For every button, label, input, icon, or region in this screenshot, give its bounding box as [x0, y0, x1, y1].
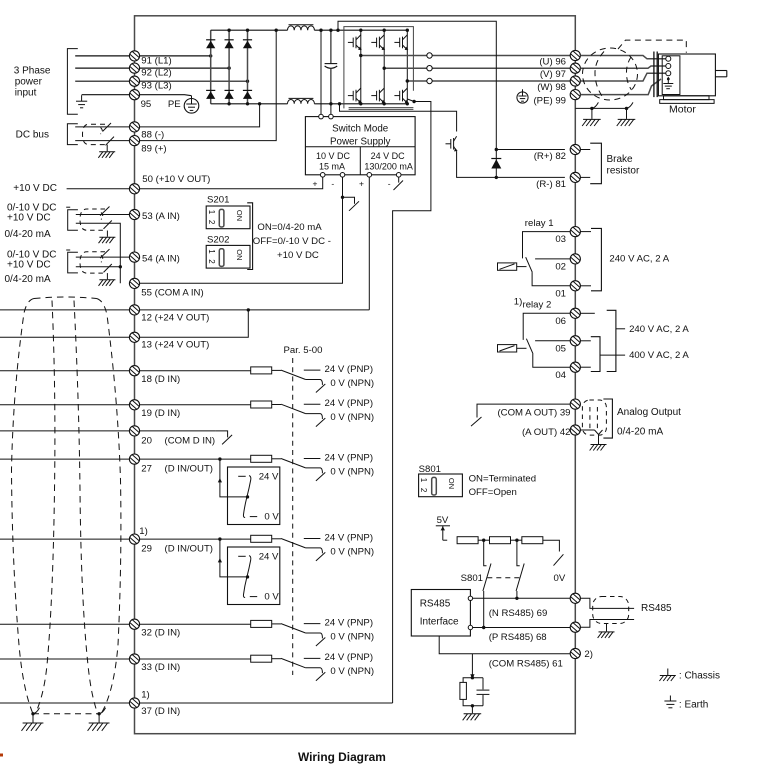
wire 18 internal — [140, 370, 251, 372]
bracket 54 — [68, 252, 78, 273]
svg-text:ON=Terminated: ON=Terminated — [469, 473, 536, 484]
svg-text:18 (D IN): 18 (D IN) — [141, 374, 180, 385]
DC+ bus right — [314, 29, 407, 31]
svg-text:Brake: Brake — [607, 154, 634, 165]
stub 82 — [580, 149, 590, 151]
wire 27 to selector — [220, 459, 248, 497]
wire 93 to rectifier — [140, 80, 248, 82]
dashed PNP/NPN boundary — [292, 358, 294, 675]
label Brake resistor — [607, 154, 640, 177]
DC- bus right — [314, 103, 407, 105]
svg-text:33 (D IN): 33 (D IN) — [141, 662, 180, 673]
wire 29 external — [0, 538, 129, 540]
resistor input 29 — [251, 535, 272, 542]
terminal 99 (PE) — [570, 90, 580, 100]
page artifact red mark — [0, 754, 3, 757]
42 shield tie — [595, 430, 603, 444]
wire V to motor — [580, 66, 665, 68]
resistor R3 termination — [522, 537, 543, 544]
bracket analog output — [603, 399, 612, 438]
terminal 20 (COM D IN) — [129, 426, 139, 436]
labels 53 analog input — [5, 202, 57, 240]
wire 18 external — [0, 370, 129, 372]
terminal 91 (L1) — [129, 51, 139, 61]
shield bond over motor (dashed) — [618, 40, 686, 53]
svg-text:Motor: Motor — [669, 104, 696, 116]
wire 12 to +24V — [140, 309, 370, 311]
wire to terminal 82 — [496, 149, 565, 151]
svg-text:-: - — [388, 178, 391, 188]
svg-text:S201: S201 — [207, 194, 229, 205]
earth ground input PE — [76, 95, 87, 108]
analog output shield (dashed) — [582, 400, 606, 435]
svg-text:(U) 96: (U) 96 — [539, 56, 566, 67]
svg-text:55 (COM A IN): 55 (COM A IN) — [141, 287, 203, 298]
svg-text:Par. 5-00: Par. 5-00 — [284, 345, 323, 356]
terminal 89 (+) — [129, 136, 139, 146]
wire to terminal 81 — [496, 176, 565, 178]
rectifier diode D5 (bottom) — [225, 90, 234, 99]
brake freewheel diode — [491, 159, 501, 169]
svg-text:input: input — [15, 88, 37, 99]
wire 5V rail — [443, 539, 447, 541]
RS485 pins — [468, 596, 472, 600]
rectifier diode D1 (top) — [206, 40, 215, 49]
resistor input 19 — [251, 401, 272, 408]
chassis ground motor shield 2 — [617, 119, 636, 126]
wire phase V — [384, 67, 570, 69]
svg-text:24 V: 24 V — [259, 472, 279, 483]
wire RS485 P external — [580, 620, 634, 628]
PNP/NPN selector 29 — [281, 539, 325, 561]
DC link capacitor — [325, 30, 338, 104]
bracket S201/S202 — [247, 203, 252, 270]
svg-text:Power Supply: Power Supply — [330, 136, 391, 147]
arrow up on selector feed 27 — [218, 478, 222, 482]
svg-text:ON=0/4-20 mA: ON=0/4-20 mA — [257, 222, 322, 233]
wire relay2 common — [533, 354, 570, 367]
rectifier diode D4 (bottom) — [206, 90, 215, 99]
labels + - + - — [313, 178, 391, 188]
svg-text:2: 2 — [207, 259, 216, 264]
wire STO chain down — [393, 102, 431, 704]
terminal 03 relay1 — [570, 227, 580, 237]
terminal 88 (-) — [129, 122, 139, 132]
wire 54 signal — [76, 256, 130, 258]
svg-text:Interface: Interface — [420, 617, 459, 628]
svg-text:24 V (PNP): 24 V (PNP) — [325, 652, 374, 663]
wire phase U — [361, 55, 570, 57]
terminal 55 (COM A IN) — [129, 278, 139, 288]
svg-text:05: 05 — [555, 343, 566, 354]
wire 53 signal — [76, 214, 130, 216]
svg-text:+10 V DC: +10 V DC — [13, 183, 57, 194]
svg-text:13 (+24 V OUT): 13 (+24 V OUT) — [141, 340, 209, 351]
inverter phase line 2 — [406, 30, 408, 104]
svg-text:power: power — [15, 77, 43, 88]
break on 39 — [471, 417, 482, 426]
svg-text:OFF=Open: OFF=Open — [469, 487, 517, 498]
wire PE to motor — [580, 79, 661, 95]
svg-text:RS485: RS485 — [420, 598, 451, 609]
wire 88 to DC- bus — [140, 104, 260, 127]
svg-text:0 V (NPN): 0 V (NPN) — [330, 466, 374, 477]
wire 10V common to terminal 55 — [140, 177, 343, 283]
wire brake IGBT emitter — [457, 151, 497, 177]
IGBT Q3 (top row) — [394, 35, 408, 50]
svg-text:OFF=0/-10 V DC -: OFF=0/-10 V DC - — [253, 236, 331, 247]
svg-text:29: 29 — [141, 543, 152, 554]
svg-text:(R-) 81: (R-) 81 — [536, 179, 566, 190]
stub 05 — [580, 340, 590, 342]
terminal 53 (A IN) — [129, 209, 139, 219]
chassis ground RS485 shield — [598, 632, 615, 638]
svg-text:400 V AC, 2 A: 400 V AC, 2 A — [629, 350, 689, 361]
wire 37 external — [0, 702, 129, 704]
stub 81 — [580, 176, 590, 178]
SMPS input pins — [319, 114, 324, 119]
svg-text:27: 27 — [141, 463, 152, 474]
break on 53 signal — [100, 207, 109, 216]
terminal 82 (R+) — [570, 144, 580, 154]
wire 53 common — [76, 223, 121, 283]
svg-text:0V: 0V — [554, 573, 566, 584]
bracket 53 — [68, 210, 78, 231]
bundle clamp 1 — [31, 712, 34, 715]
DC+ bus left — [211, 29, 288, 31]
wire L1 input — [75, 55, 129, 57]
break to 0V — [554, 554, 564, 565]
connector break on 20 — [216, 431, 233, 445]
svg-text:(A OUT) 42: (A OUT) 42 — [522, 427, 571, 438]
RC termination network — [460, 678, 490, 706]
chassis ground analog out — [590, 445, 607, 451]
svg-text:89 (+): 89 (+) — [141, 143, 166, 154]
phase sensor circle — [427, 78, 432, 83]
wire 39 common — [477, 404, 570, 417]
wire P RS485 — [473, 627, 571, 629]
stub 06 — [580, 312, 594, 314]
rectifier diode D3 (top) — [243, 40, 252, 49]
terminal 27 (D IN/OUT) — [129, 454, 139, 464]
svg-text:0 V: 0 V — [264, 511, 279, 522]
svg-text:0/4-20 mA: 0/4-20 mA — [617, 426, 663, 437]
svg-text:54 (A IN): 54 (A IN) — [142, 254, 180, 265]
terminal 32 (D IN) — [129, 619, 139, 629]
terminal 54 (A IN) — [129, 252, 139, 262]
motor internal earth — [663, 77, 673, 89]
selector contact 27 — [238, 476, 257, 518]
legend earth symbol — [664, 696, 676, 708]
svg-text:03: 03 — [555, 234, 566, 245]
svg-text:93 (L3): 93 (L3) — [141, 81, 171, 92]
PE earth-in-circle at 99 — [517, 89, 528, 103]
terminal 02 relay1 — [570, 254, 580, 264]
rectifier bridge — [211, 30, 248, 104]
wire 33 internal — [140, 658, 251, 660]
PNP/NPN selector 18 — [281, 370, 325, 392]
wire 29 to selector — [220, 539, 248, 577]
wire 27 internal — [140, 458, 251, 460]
stub 01 — [580, 285, 591, 287]
terminal 50 (+10 V OUT) — [129, 184, 139, 194]
terminal 97 (V) — [570, 63, 580, 73]
wire 99 shield bonding — [575, 107, 626, 109]
wire 42 out — [580, 429, 594, 431]
S801 switch contact 1 — [483, 540, 491, 627]
wire 29 internal — [140, 538, 251, 540]
wire +24V to terminal 12 — [368, 177, 370, 310]
wire DC+ to brake — [338, 21, 496, 177]
svg-text:06: 06 — [555, 316, 566, 327]
wire phase W — [407, 80, 570, 82]
svg-text:RS485: RS485 — [641, 603, 672, 614]
wire 89 to DC+ bus — [140, 30, 277, 140]
terminal 95 PE — [129, 90, 139, 100]
selector contact 29 — [238, 556, 257, 598]
svg-text:1): 1) — [141, 689, 150, 700]
control cable shield bundle (dashed) — [12, 297, 121, 714]
svg-text:20: 20 — [141, 435, 152, 446]
resistor input 27 — [251, 455, 272, 462]
svg-text:1): 1) — [139, 526, 148, 537]
S20x annotation — [253, 222, 331, 261]
break on 54 common — [104, 264, 112, 272]
svg-text:1): 1) — [514, 297, 523, 308]
svg-text:240 V AC, 2 A: 240 V AC, 2 A — [629, 324, 689, 335]
wire to 0V — [543, 540, 560, 551]
svg-text:15 mA: 15 mA — [319, 161, 345, 171]
relay 2 contact arm — [526, 339, 533, 354]
svg-text:02: 02 — [555, 262, 566, 273]
terminal 05 relay2 — [570, 336, 580, 346]
motor — [654, 52, 727, 104]
svg-text:24 V (PNP): 24 V (PNP) — [325, 617, 374, 628]
bracket relay 1 — [591, 228, 601, 290]
terminal 81 (R-) — [570, 172, 580, 182]
S801 switch contact 2 — [516, 540, 524, 598]
svg-text:0/4-20 mA: 0/4-20 mA — [5, 229, 51, 240]
svg-text:24 V (PNP): 24 V (PNP) — [325, 398, 374, 409]
svg-text:resistor: resistor — [607, 166, 640, 177]
wire relay1 common — [532, 272, 570, 286]
resistor R2 termination — [490, 537, 511, 544]
svg-text:24 V DC: 24 V DC — [371, 151, 406, 161]
svg-text:24 V (PNP): 24 V (PNP) — [325, 452, 374, 463]
svg-text:95: 95 — [141, 99, 152, 110]
terminal 69 (N RS485) — [570, 593, 580, 603]
wire 88 — [75, 126, 129, 128]
wire L2 input — [75, 67, 129, 69]
bracket relay 2 outer — [607, 310, 616, 371]
terminal 96 (U) — [570, 50, 580, 60]
inverter module frame — [344, 27, 414, 110]
svg-text:0 V (NPN): 0 V (NPN) — [330, 631, 374, 642]
wire 19 external — [0, 404, 129, 406]
label 27 (D IN/OUT) — [141, 463, 213, 474]
relay 2 coil — [498, 345, 527, 352]
RS485 cable shield (dashed) — [593, 597, 629, 624]
terminal 13 (+24 V OUT) — [129, 332, 139, 342]
terminal 68 (P RS485) — [570, 622, 580, 632]
wire 92 to rectifier — [140, 67, 230, 69]
rectifier diode D6 (bottom) — [243, 90, 252, 99]
dash to 400V label — [600, 354, 625, 356]
break on 53 common — [104, 221, 112, 229]
svg-text:Analog Output: Analog Output — [617, 407, 681, 418]
svg-text:01: 01 — [555, 288, 566, 299]
svg-text:1: 1 — [419, 478, 428, 483]
svg-text:0 V (NPN): 0 V (NPN) — [330, 412, 374, 423]
svg-text:1: 1 — [207, 210, 216, 215]
terminal 04 relay2 — [570, 362, 580, 372]
svg-text:32 (D IN): 32 (D IN) — [141, 627, 180, 638]
bracket relay 2 inner — [591, 337, 600, 372]
bracket DC bus — [67, 124, 77, 145]
svg-text:0 V: 0 V — [264, 591, 279, 602]
DC bus cable shield (dashed) — [83, 124, 106, 144]
wire 20 internal — [140, 430, 216, 432]
drive enclosure box — [135, 16, 576, 734]
terminal 33 (D IN) — [129, 654, 139, 664]
svg-text:Wiring Diagram: Wiring Diagram — [298, 750, 386, 764]
PNP/NPN selector 33 — [281, 658, 325, 680]
terminal 06 relay2 — [570, 308, 580, 318]
svg-text:50 (+10 V OUT): 50 (+10 V OUT) — [142, 174, 210, 185]
svg-text:relay 1: relay 1 — [525, 218, 554, 229]
legend chassis symbol — [659, 669, 675, 682]
terminal 61 (COM RS485) — [570, 648, 580, 658]
PNP/NPN selector 32 — [281, 624, 325, 646]
terminal 19 (D IN) — [129, 400, 139, 410]
shield drain to chassis — [106, 145, 108, 152]
resistor input 32 — [251, 620, 272, 627]
wire 19 internal — [140, 404, 251, 406]
svg-text:(COM RS485) 61: (COM RS485) 61 — [489, 659, 563, 670]
svg-text:Switch Mode: Switch Mode — [332, 123, 389, 134]
svg-text:(P RS485) 68: (P RS485) 68 — [489, 632, 547, 643]
wire DC- to SMPS — [330, 104, 332, 117]
wire 13 external — [0, 336, 129, 338]
svg-text:DC bus: DC bus — [16, 129, 49, 140]
break symbol on 88 wire — [103, 123, 112, 132]
arrow up on selector feed 29 — [218, 558, 222, 562]
24V/0V source box 29 — [228, 547, 280, 605]
svg-text:(N RS485) 69: (N RS485) 69 — [489, 608, 548, 619]
DC link inductor top — [288, 25, 315, 30]
Switch Mode Power Supply box — [305, 117, 415, 175]
svg-text:: Earth: : Earth — [679, 699, 708, 710]
wire 13 to 12 — [140, 310, 249, 337]
inverter phase line 0 — [360, 30, 362, 104]
break symbol on 89 wire — [106, 137, 115, 146]
bundle clamp 2 — [97, 712, 100, 715]
shield clamp 2 — [625, 107, 628, 110]
svg-text:24 V (PNP): 24 V (PNP) — [325, 532, 374, 543]
wire 32 internal — [140, 623, 251, 625]
IGBT Q6 (bottom row) — [394, 88, 408, 103]
arrow into RC — [470, 674, 474, 678]
svg-text:: Chassis: : Chassis — [679, 670, 720, 681]
svg-text:0 V (NPN): 0 V (NPN) — [330, 546, 374, 557]
PE protective earth symbol — [184, 96, 199, 113]
wire U to motor — [580, 56, 665, 59]
terminal 12 (+24 V OUT) — [129, 305, 139, 315]
terminal 93 (L3) — [129, 76, 139, 86]
svg-text:12 (+24 V OUT): 12 (+24 V OUT) — [141, 312, 209, 323]
wire DC+ to SMPS — [320, 30, 322, 116]
svg-text:ON: ON — [447, 478, 456, 489]
svg-text:2: 2 — [207, 220, 216, 225]
svg-text:-: - — [331, 178, 334, 188]
relay 1 coil — [498, 263, 527, 270]
svg-text:5V: 5V — [437, 515, 449, 526]
bracket 3-phase input — [67, 49, 77, 115]
wire COM RS485 — [439, 636, 570, 654]
wire RS485 N external — [580, 598, 634, 608]
wire W to motor — [580, 73, 665, 81]
svg-text:S202: S202 — [207, 234, 229, 245]
svg-text:+: + — [359, 178, 364, 188]
terminal 39 (COM A OUT) — [570, 399, 580, 409]
DIP switch S801 — [419, 474, 463, 497]
stub 04 — [580, 366, 590, 368]
svg-text:04: 04 — [555, 370, 566, 381]
svg-text:(R+) 82: (R+) 82 — [534, 151, 566, 162]
label 1) relay 2 — [514, 297, 551, 311]
svg-text:2: 2 — [419, 488, 428, 493]
svg-text:+10 V DC: +10 V DC — [7, 213, 51, 224]
label 3 Phase power input — [14, 66, 51, 99]
wire 54 common — [76, 266, 121, 268]
chassis ground DC bus shield — [98, 152, 115, 158]
svg-text:+: + — [313, 178, 318, 188]
wire relay1 NC — [523, 232, 571, 259]
terminal 29 (D IN/OUT) — [129, 534, 139, 544]
svg-text:53 (A IN): 53 (A IN) — [142, 211, 180, 222]
resistor input 33 — [251, 655, 272, 662]
svg-text:91 (L1): 91 (L1) — [141, 55, 171, 66]
chassis ground bundle 2 — [88, 723, 110, 731]
terminal 37 (D IN) — [129, 698, 139, 708]
DIP switch S202 — [206, 245, 250, 268]
wire +10V to terminal 50 — [140, 177, 323, 189]
S801 coupling (dashed) — [487, 577, 519, 579]
label 20 (COM D IN) — [141, 435, 215, 446]
wire +10V external — [67, 188, 130, 190]
svg-text:0 V (NPN): 0 V (NPN) — [330, 666, 374, 677]
svg-text:2): 2) — [584, 649, 593, 660]
chassis ground bundle 1 — [21, 723, 43, 731]
svg-text:ON: ON — [235, 210, 244, 221]
RS485 Interface box — [411, 590, 470, 637]
wire relay1 NO — [535, 258, 570, 260]
terminal 18 (D IN) — [129, 366, 139, 376]
wire N RS485 — [473, 597, 571, 599]
resistor R1 termination — [457, 537, 478, 544]
stub 03 — [580, 231, 591, 233]
svg-text:relay 2: relay 2 — [523, 300, 552, 311]
brake IGBT — [446, 136, 458, 151]
svg-text:(COM D IN): (COM D IN) — [165, 435, 216, 446]
svg-text:S801: S801 — [419, 464, 441, 475]
wire 12 external — [0, 309, 129, 311]
svg-text:240 V AC, 2 A: 240 V AC, 2 A — [609, 254, 669, 265]
svg-text:130/200 mA: 130/200 mA — [364, 161, 413, 171]
rectifier diode D2 (top) — [225, 40, 234, 49]
dash to 240V label — [616, 328, 625, 330]
shield clamp 1 — [590, 107, 593, 110]
